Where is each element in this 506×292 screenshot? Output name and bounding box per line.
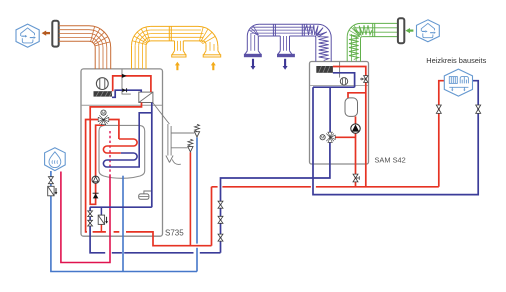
three fittings on return riser (218, 201, 223, 241)
drain water-trap (172, 160, 181, 165)
purple horizontal duct (259, 23, 318, 25)
outdoor-air wall flange (398, 18, 404, 43)
flow arrow on condenser hot pipe (122, 74, 127, 78)
heating circuit return line (313, 81, 478, 195)
return riser with three valves (221, 141, 330, 253)
green elbow up (347, 23, 361, 37)
SAM heating battery (316, 66, 333, 73)
condensate drain outlet arrow (166, 156, 173, 163)
exhaust air room icon (16, 24, 39, 47)
SAM coil return piping (313, 73, 355, 134)
yellow flow arrow up (right) (211, 62, 216, 66)
SAM S42 unit outline (310, 62, 369, 165)
yellow duct horizontal (151, 25, 198, 27)
SAM pump line (355, 116, 357, 186)
orange duct elbow (89, 26, 111, 48)
exhaust-out flow arrow (brown, left) (42, 31, 47, 36)
safety valve (heating) (188, 147, 193, 152)
S735 exhaust fan (96, 78, 108, 90)
S735 water tank (99, 125, 145, 178)
filter drop leg (navy) (100, 207, 102, 215)
SAM expansion vessel (345, 98, 358, 117)
shut-off valve on cold water inlet (48, 177, 53, 184)
shunt valve left port / heating supply out (86, 120, 99, 232)
purple left vertical with flange (246, 36, 248, 51)
shunt valve right port to coil (109, 120, 119, 140)
yellow duct joint (168, 26, 170, 41)
non-return valve under pump (93, 192, 99, 194)
heating circuit icon (444, 69, 472, 96)
cold water line (tap side with shut-off and filter) (51, 171, 197, 272)
SAM shunt-to-pump pipe (335, 136, 356, 138)
shut-off valves on S735 return (88, 211, 93, 226)
top section condenser cold pipe (112, 90, 141, 97)
top section condenser hot pipe (113, 76, 151, 92)
yellow extract duct vertical from S735 (132, 26, 221, 69)
SAM duct sensor (339, 62, 341, 78)
condenser return line (151, 103, 153, 208)
condenser supply down to pump loop (90, 103, 141, 205)
S735 compressor block (94, 91, 113, 96)
green outdoor-air duct (347, 23, 398, 61)
svg-text:M: M (321, 136, 324, 140)
heating return main from S735 valve column (90, 207, 105, 253)
supply-air flow arrow down (right) (283, 66, 288, 70)
exhaust-out wall flange (52, 21, 58, 47)
check valve on heating circuit supply (436, 105, 441, 113)
hot tap water pipe inside tank (dashed) (109, 131, 111, 175)
outdoor-air flow arrow (green, left) (405, 28, 410, 33)
SAM supply fan (340, 78, 347, 85)
hot water tap icon (45, 148, 66, 171)
SAM circulation pump (351, 124, 360, 133)
S735 duct temperature sensor (122, 69, 131, 94)
green flex-hose zigzag (349, 25, 372, 59)
purple duct joints (272, 24, 274, 36)
purple right elbow into SAM (318, 24, 331, 37)
yellow right elbow down (198, 26, 218, 46)
filter drop leg (red) (100, 224, 102, 232)
svg-text:S735: S735 (165, 228, 184, 237)
tank coil cold half (103, 113, 151, 167)
S735 top-section divider (82, 104, 162, 106)
cold water riser to safety valve (196, 248, 198, 272)
S735 internal return header (90, 206, 152, 208)
orange duct vertical into S735 (94, 48, 96, 70)
S735 heat exchanger (139, 92, 153, 102)
cold water feed into tank bottom (122, 176, 124, 272)
SAM battery supply pipe (333, 67, 366, 187)
S735 shunt valve with motor (98, 110, 109, 125)
S735 charge pump (92, 176, 99, 183)
safety valve (potable water) (194, 132, 199, 137)
green horizontal duct (361, 22, 398, 24)
filter on cold water inlet (48, 186, 54, 196)
purple flex-hose zigzag (305, 25, 329, 60)
non-return valve on condenser cold pipe (122, 88, 126, 92)
safety valve outlet pipes (171, 132, 194, 134)
check valve on heating circuit return (476, 105, 481, 113)
heating supply riser and bus (212, 187, 439, 246)
condensate drain pipe (153, 103, 170, 124)
immersion heater (139, 194, 149, 199)
yellow T-branch with flange (174, 41, 176, 51)
hot tap water pipe to tap (61, 172, 110, 263)
supply-air flow arrow down (left) (251, 66, 256, 70)
tank coil hot half (103, 139, 137, 153)
fresh air outdoor icon (417, 20, 440, 42)
svg-text:Heizkreis bauseits: Heizkreis bauseits (426, 56, 486, 65)
dirt filter under return header (98, 215, 104, 224)
yellow duct elbow (132, 26, 151, 45)
SAM vessel feed (348, 93, 366, 98)
svg-text:M: M (102, 111, 105, 115)
SAM venting valve (364, 76, 368, 83)
purple T-branch with flange (279, 36, 281, 51)
SAM shut-off valve below unit (353, 174, 358, 182)
svg-text:SAM S42: SAM S42 (375, 156, 406, 165)
orange exhaust duct horizontal (59, 26, 111, 69)
heating circuit supply line (439, 81, 445, 187)
purple left elbow down (247, 24, 259, 36)
safety valve drop (heating) (189, 152, 191, 246)
purple supply duct (244, 24, 331, 61)
SAM shunt valve with motor (320, 132, 335, 142)
green duct joint (372, 23, 374, 36)
yellow flow arrow up (left) (175, 62, 180, 66)
S735 unit outline (81, 69, 163, 236)
SAM top-section divider (310, 85, 368, 87)
